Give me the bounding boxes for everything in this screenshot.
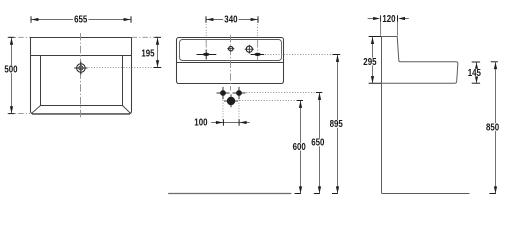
dim 655 left arrow [31,18,38,21]
dim 195 top tick [155,36,161,38]
svg-text:340: 340 [224,15,238,26]
svg-text:195: 195 [141,48,155,59]
dim 600 bottom arrow [299,186,302,193]
dim 100 right arrow [240,121,247,124]
dim 120 right ext [397,22,399,36]
dim 340 left arrow [206,18,213,21]
dim 650 bottom arrow [318,186,321,193]
dim 600 top arrow [299,101,302,108]
svg-text:850: 850 [486,122,500,133]
dim 600 line [300,101,302,193]
dim 500 line [11,38,13,113]
right hole axis dash [257,40,259,62]
dim 500 ext top dashdot [8,36,31,38]
front view inner rim [180,40,282,61]
dim 655 right tick [130,16,132,22]
dim 895 text [328,119,344,130]
dim 895 bottom tick [332,193,338,195]
dim 100 left arrow [216,121,223,124]
dim 500 bottom arrow [10,106,13,113]
svg-text:895: 895 [330,119,344,130]
dim 850 top arrow [494,62,497,69]
faucet hole crosshair h [74,67,87,69]
dim 145 line [476,62,478,83]
dim 120 text [381,14,397,25]
dim 650 line [319,93,321,193]
waste crosshair h [224,100,238,102]
dim 100 text [193,118,209,129]
left supply crosshair h [217,92,230,94]
dim 895 top tick [332,54,340,56]
plan inner bowl [41,56,123,106]
dim 195 line [157,38,159,67]
dim 295 top arrow [371,37,374,44]
left hole axis dotted [205,22,207,37]
dim 340 text [223,15,239,26]
dim 145 bottom tick [472,82,480,84]
faucet hole crosshair v [80,62,82,75]
dim 655 line [31,19,131,21]
dim 850 bottom arrow [494,186,497,193]
tap hole crosshair v [248,45,250,54]
right supply crosshair v [238,87,240,99]
supply height dotted [244,92,315,94]
faucet hole extension dotted [89,67,155,69]
dim 600 text [291,142,307,153]
dim 145 top tick [472,61,480,63]
dim 295 bottom tick [369,82,381,84]
dim 655 text [73,15,89,26]
dim 195 top arrow [156,38,159,45]
left supply crosshair v [222,87,224,99]
dim 600 top tick [297,100,303,102]
dim 295 text [362,57,378,68]
faucet hole [77,64,86,73]
dim 895 line [337,55,339,193]
dim 650 top tick [316,92,322,94]
dim 895 bottom arrow [336,186,339,193]
dim 655 left tick [30,16,32,22]
right hole centerline h [251,54,265,56]
side profile outline [382,37,458,194]
left hole axis dash [205,40,207,62]
right supply connection [236,90,242,96]
dim 850 line [495,62,497,193]
left supply connection [220,90,226,96]
dim 500 top tick [8,36,14,38]
dim 500 text [3,65,19,76]
waste drain [227,97,235,105]
dim 120 left tick [380,15,382,21]
dim 500 ext bottom dashdot [8,113,31,115]
dim 340 right arrow [251,18,258,21]
front floor line [168,193,291,195]
plan vertical centerline [80,33,82,117]
svg-text:600: 600 [293,142,307,153]
dim 895 top arrow [336,55,339,62]
dim 145 text [467,68,483,79]
dim 120 right arrow [398,17,405,20]
dim 295 bottom arrow [371,76,374,83]
dim 195 ext bottom tick [154,67,162,69]
dim 500 bottom tick [8,113,14,115]
dim 100 right tick [238,119,240,125]
dim 120 left arrow [373,17,380,20]
svg-text:120: 120 [382,14,396,25]
right supply crosshair h [233,92,246,94]
dim 650 bottom tick [314,193,320,195]
dim 295 line [372,37,374,83]
washbasin plan view outline [31,38,132,114]
dim 195 ext top dashdot [132,36,161,38]
dim 850 bottom tick [489,193,496,195]
waste height dotted [240,100,296,102]
plan bowl corner diagonal left [32,106,41,114]
svg-text:500: 500 [4,65,18,76]
svg-text:100: 100 [194,118,208,129]
side floor line [382,193,470,195]
overflow crosshair h [227,48,234,50]
dim 100 line [211,122,249,124]
dim 850 top tick [491,61,498,63]
front vertical centerline [230,35,232,91]
washbasin front view outline [177,38,284,84]
dim 120 left dash [368,18,374,20]
waste crosshair v [230,94,232,107]
plan front rim edge [32,113,130,115]
svg-text:295: 295 [363,57,377,68]
dim 145 top arrow [475,62,478,69]
overflow hole [229,47,233,51]
tap hole [246,46,252,52]
dim 340 line [206,19,258,21]
dim 120 right tick [397,15,399,21]
left hole centerline h [197,54,217,56]
hole height extension dotted [265,54,332,56]
dim 650 top arrow [318,93,321,100]
dim 295 top tick [369,36,381,38]
dim 120 left ext [380,22,382,36]
dim 120 right dash [403,18,409,20]
dim 340 left tick [205,16,207,22]
dim 850 text [485,122,501,133]
tap hole crosshair h [245,48,254,50]
dim 100 left tick [222,119,224,125]
left hole centerline v [205,50,207,60]
plan bowl corner diagonal right [123,106,131,114]
dim 340 right tick [257,16,259,22]
right supply ext dotted [238,100,240,122]
dim 600 bottom tick [295,193,301,195]
dim 655 right arrow [124,18,131,21]
dim 195 bottom arrow [156,60,159,67]
svg-text:650: 650 [311,138,325,149]
dim 145 bottom arrow [475,76,478,83]
dim 195 text [140,48,156,59]
right hole axis dotted [257,22,259,37]
dim 650 text [310,138,326,149]
dim 500 top arrow [10,38,13,45]
svg-text:655: 655 [74,15,88,26]
front rim line [177,62,284,64]
plan rear deck line [31,55,132,57]
svg-text:145: 145 [468,68,482,79]
left supply ext dotted [222,100,224,122]
